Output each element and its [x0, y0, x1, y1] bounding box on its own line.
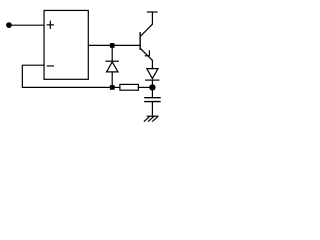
wire D2 to node: [151, 81, 153, 85]
capacitor C1: [145, 98, 160, 102]
op-amp U1: [44, 10, 88, 79]
wire inverting input feedback: [22, 65, 110, 87]
node junction J2: [110, 85, 115, 90]
node input terminal: [6, 22, 12, 28]
wire J2 to R1: [115, 86, 120, 88]
transistor Q1: [140, 12, 152, 60]
wire J1 to D1: [111, 48, 113, 61]
wire R1 to node: [138, 86, 149, 88]
wire C1 to ground: [151, 102, 153, 116]
wire D1 to J2: [111, 72, 113, 85]
wire op-amp output: [88, 44, 139, 46]
resistor R1: [120, 84, 138, 90]
wire node to C1: [151, 90, 153, 97]
wire emitter to D2: [151, 60, 153, 68]
node junction (round): [149, 84, 155, 90]
wire input to op-amp +: [11, 24, 44, 26]
diode D2: [146, 69, 159, 81]
node junction J1: [110, 43, 115, 48]
diode D1: [106, 61, 118, 72]
node collector terminal: [147, 11, 157, 13]
ground: [144, 116, 158, 121]
